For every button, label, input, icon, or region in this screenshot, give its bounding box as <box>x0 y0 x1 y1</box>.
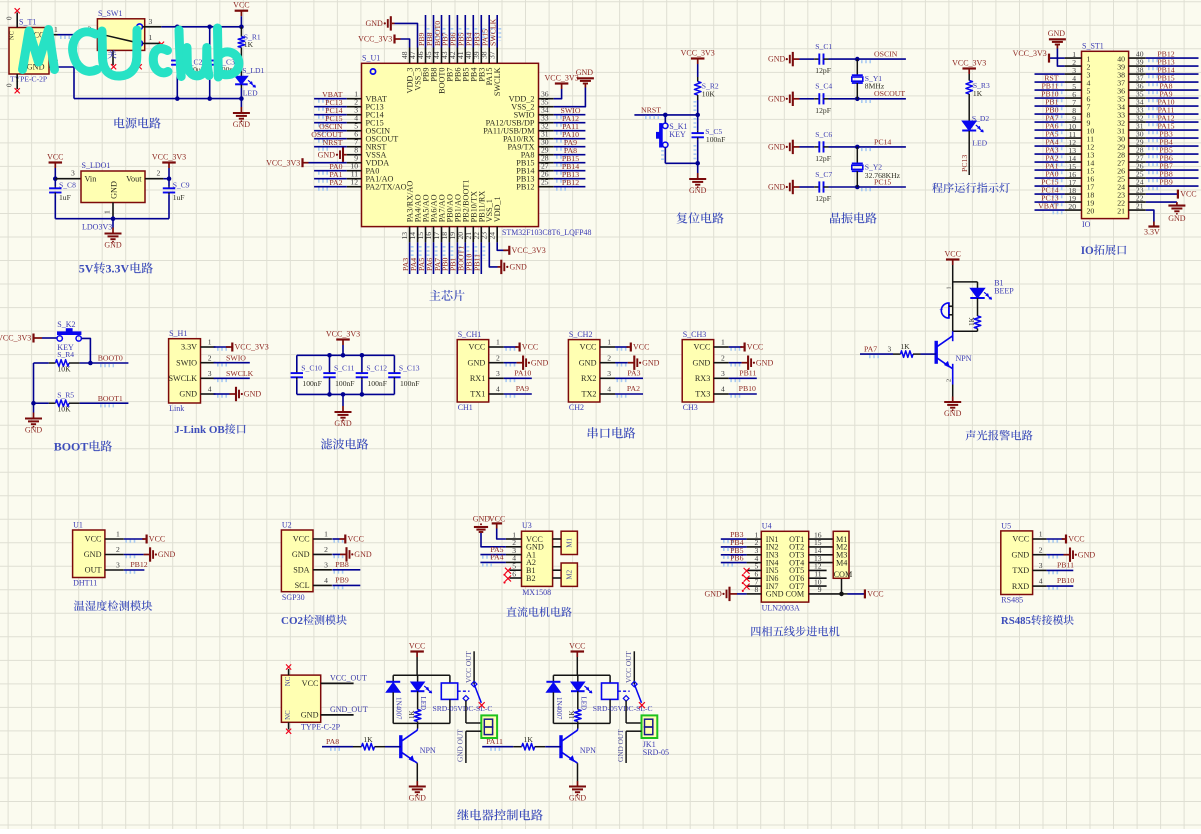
svg-text:PB9: PB9 <box>1159 177 1173 186</box>
pushbutton S_K1 KEY <box>656 115 688 163</box>
resistor 1K relay LED <box>568 710 581 724</box>
ST1 left pin 16 stub <box>1065 177 1082 179</box>
capacitor S_C10 100nF <box>291 355 323 394</box>
svg-text:10K: 10K <box>702 89 716 98</box>
U1 left pin 2 stub <box>347 106 362 108</box>
U1 right pin 25 stub <box>539 186 554 188</box>
wire U3 A2 net PA4 <box>480 561 506 563</box>
wire relay VCC vertical <box>576 657 578 675</box>
U1 bottom pin 19 stub <box>456 227 458 243</box>
ground GND filter <box>342 394 344 406</box>
svg-text:2: 2 <box>607 353 611 362</box>
svg-text:21: 21 <box>1136 202 1144 211</box>
wire BOOT divider vertical <box>33 363 35 403</box>
capacitor S_C4 12pF <box>800 82 833 115</box>
svg-text:S_CH2: S_CH2 <box>569 330 593 339</box>
svg-text:TX1: TX1 <box>470 390 485 399</box>
relay contact arm <box>618 681 642 703</box>
svg-text:3.3V: 3.3V <box>1144 228 1160 237</box>
svg-text:GND: GND <box>1011 550 1029 559</box>
U3 pin2 stub <box>506 546 522 548</box>
wire U1 left pin 11 net PA1 <box>314 178 347 180</box>
svg-text:GND: GND <box>1168 214 1186 223</box>
power flag VCC_3V3 filter <box>342 340 344 346</box>
ST1 right pin 27 stub <box>1129 161 1146 163</box>
svg-text:TXD: TXD <box>1012 566 1029 575</box>
svg-text:4: 4 <box>496 385 500 394</box>
svg-text:2: 2 <box>324 545 328 554</box>
svg-text:VCC: VCC <box>1180 190 1196 199</box>
wire ST1 left pin 20 net VBAT <box>1035 209 1065 211</box>
svg-text:TYPE-C-2P: TYPE-C-2P <box>301 723 341 732</box>
U1 top pin 40 stub <box>472 48 474 64</box>
wire ST1 left pin 17 net PC15 <box>1035 185 1065 187</box>
ground GND power circuit <box>240 99 242 107</box>
ground GND at VSS_2 pin35 <box>554 68 594 107</box>
ST1 left pin 11 stub <box>1065 137 1082 139</box>
svg-text:VCC: VCC <box>149 535 165 544</box>
svg-text:GND: GND <box>158 550 176 559</box>
svg-text:PB9: PB9 <box>335 576 349 585</box>
svg-text:COM: COM <box>786 590 805 599</box>
svg-text:U4: U4 <box>762 521 772 530</box>
title 电源电路 <box>114 117 124 128</box>
junction crystal at OSCIN <box>855 57 860 62</box>
svg-text:3: 3 <box>324 560 328 569</box>
svg-text:3: 3 <box>721 369 725 378</box>
U1 right pin 26 stub <box>539 178 554 180</box>
title 晶振电路 <box>830 212 840 223</box>
power flag VCC U2 pin1 <box>332 535 364 544</box>
svg-text:VCC_3V3: VCC_3V3 <box>152 153 186 162</box>
U1 left pin 5 stub <box>347 130 362 132</box>
U1 left pin 12 stub <box>347 186 362 188</box>
svg-text:KEY: KEY <box>669 130 686 139</box>
svg-text:S_C11: S_C11 <box>334 363 355 372</box>
svg-text:U5: U5 <box>1001 521 1011 530</box>
wire TX1 net PA9 <box>504 393 532 395</box>
no-ERC mark U3 pin5 <box>505 568 511 574</box>
resistor 1K relay base <box>353 735 401 750</box>
U1 bottom pin 22 stub <box>480 227 482 243</box>
wire top rail VCC <box>161 26 241 28</box>
ST1 left pin 18 stub <box>1065 193 1082 195</box>
wire SWIO <box>214 362 250 364</box>
U4 left pin 3 stub <box>747 554 762 556</box>
svg-text:GND: GND <box>756 358 774 367</box>
ST1 left pin 10 stub <box>1065 129 1082 131</box>
ground GND alarm <box>952 397 954 403</box>
svg-text:1: 1 <box>946 286 953 289</box>
power flag VCC alarm <box>952 260 954 266</box>
U1 bottom pin 18 stub <box>448 227 450 243</box>
svg-text:1K: 1K <box>900 342 910 351</box>
module U1 DHT11 <box>73 520 138 587</box>
svg-text:GND: GND <box>1048 29 1066 38</box>
svg-text:BOOT: BOOT <box>54 440 89 454</box>
U1 top pin 41 stub <box>464 48 466 64</box>
U1 bottom pin 14 stub <box>417 227 419 243</box>
power flag VCC ST1 pin23 <box>1146 190 1197 199</box>
capacitor S_C2 100uF <box>171 27 205 99</box>
svg-text:4: 4 <box>208 385 212 394</box>
wire U1 left pin 6 net OSCOUT <box>314 138 347 140</box>
svg-text:SRD-05: SRD-05 <box>643 748 669 757</box>
svg-text:GND: GND <box>768 183 786 192</box>
svg-text:RS485: RS485 <box>1001 615 1031 627</box>
wire RX1 net PA10 <box>504 377 532 379</box>
svg-text:S_H1: S_H1 <box>169 329 187 338</box>
svg-text:S_C7: S_C7 <box>815 170 832 179</box>
U1 top pin 39 stub <box>480 48 482 64</box>
resistor 1K relay base <box>513 735 561 750</box>
svg-text:VCC: VCC <box>348 535 364 544</box>
ST1 left pin 9 stub <box>1065 121 1082 123</box>
svg-text:NRST: NRST <box>323 138 343 147</box>
crystal S_Y1 8MHz <box>852 59 885 99</box>
svg-text:SWCLK: SWCLK <box>226 369 254 378</box>
U1 left pin 3 stub <box>347 114 362 116</box>
junction bottom rail at C2 <box>175 96 180 101</box>
svg-text:PB12: PB12 <box>130 560 147 569</box>
svg-text:LED: LED <box>579 697 587 711</box>
resistor S_R2 10K <box>694 64 718 115</box>
svg-text:VDD_1: VDD_1 <box>493 196 502 222</box>
no-ERC mark U4 pin6 <box>744 576 750 582</box>
power flag VCC relay <box>416 652 418 658</box>
svg-text:24: 24 <box>488 232 497 240</box>
ST1 left pin 5 stub <box>1065 89 1082 91</box>
wire BOOT0 <box>80 362 129 364</box>
no-ERC mark U3 pin6 <box>505 576 511 582</box>
U1 right pin 31 stub <box>539 138 554 140</box>
ground GND CH3 pin2 <box>729 356 774 370</box>
wire U1 top pin 44 net BOOT0 <box>441 15 443 48</box>
wire ST1 right pin 26 net PB7 <box>1146 169 1199 171</box>
relay contact common VCC OUT <box>624 651 634 684</box>
svg-text:2: 2 <box>721 353 725 362</box>
svg-text:GND: GND <box>705 590 723 599</box>
U4 right pin 14 wire <box>809 554 834 556</box>
no-ERC mark SW1 bottom pin A <box>111 64 116 69</box>
svg-text:VCC: VCC <box>468 343 485 352</box>
stepper motor connector M1-M4 COM <box>833 531 853 579</box>
wire U1 bottom pin 19 net PB1 <box>456 242 458 274</box>
svg-text:TX2: TX2 <box>581 390 596 399</box>
svg-text:VCC_3V3: VCC_3V3 <box>952 59 986 68</box>
power flag VCC CH3 pin1 <box>729 343 763 352</box>
svg-text:S_LDO1: S_LDO1 <box>82 161 111 170</box>
svg-text:VCC: VCC <box>1012 535 1029 544</box>
U1 right pin 33 stub <box>539 122 554 124</box>
U1 left pin 9 stub <box>347 162 362 164</box>
svg-text:12pF: 12pF <box>815 106 831 115</box>
svg-text:S_LD1: S_LD1 <box>242 66 264 75</box>
wire U1 top pin 43 net PB7 <box>448 15 450 48</box>
ST1 right pin 37 stub <box>1129 81 1146 83</box>
power flag VCC_3V3 at VDD_1 pin24 <box>497 242 546 255</box>
svg-text:1: 1 <box>149 33 153 42</box>
compile marks reset <box>694 101 697 112</box>
svg-text:GND: GND <box>768 143 786 152</box>
svg-text:S_CH3: S_CH3 <box>683 330 707 339</box>
svg-text:LED: LED <box>243 89 258 98</box>
svg-text:PA11: PA11 <box>486 737 503 746</box>
ST1 right pin 26 stub <box>1129 169 1146 171</box>
svg-text:1K: 1K <box>363 735 373 744</box>
resistor S_R1 1K <box>238 27 261 52</box>
connector T2 TYPE-C-2P output <box>281 669 340 732</box>
svg-text:TX3: TX3 <box>695 390 710 399</box>
resistor 1K alarm LED <box>967 316 981 331</box>
U4 left pin 2 stub <box>747 546 762 548</box>
svg-text:GND: GND <box>569 794 587 803</box>
ground GND U4 pin8 <box>705 587 747 601</box>
U1 bottom pin 15 stub <box>425 227 427 243</box>
LED relay <box>411 675 432 710</box>
ground GND LDO <box>112 219 114 228</box>
power flag VCC_3V3 J-Link pin1 <box>214 343 269 352</box>
svg-text:VCC: VCC <box>409 642 425 651</box>
U1 left pin 1 stub <box>347 98 362 100</box>
svg-text:1K: 1K <box>524 735 534 744</box>
svg-text:GND OUT: GND OUT <box>616 729 625 762</box>
U1 bottom pin 23 stub <box>488 227 490 243</box>
U1 right pin 29 stub <box>539 154 554 156</box>
no-ERC mark SW1 pin1 <box>159 42 164 47</box>
wire U1 left pin 1 net VBAT <box>314 98 347 100</box>
U1 left pin 10 stub <box>347 170 362 172</box>
svg-text:1K: 1K <box>244 40 254 49</box>
svg-text:3: 3 <box>116 561 120 570</box>
U4 right pin 12 wire <box>809 569 827 571</box>
U3 pin5 stub (NC) <box>510 569 522 571</box>
wire ST1 left pin 14 net PA2 <box>1035 161 1065 163</box>
junction reset ground node <box>695 161 700 166</box>
wire ST1 left pin 19 net PC13 <box>1035 201 1065 203</box>
switch S_SW1 开关 <box>84 9 162 65</box>
svg-text:12pF: 12pF <box>815 154 831 163</box>
relay coil SRD-05VDC-SL-C <box>593 675 653 723</box>
svg-text:1uF: 1uF <box>173 193 185 202</box>
U4 left pin 4 stub <box>747 562 762 564</box>
ST1 left pin 17 stub <box>1065 185 1082 187</box>
wire U4 IN4 net PB6 <box>721 562 747 564</box>
ST1 left pin 19 stub <box>1065 201 1082 203</box>
svg-text:PA4: PA4 <box>490 553 503 562</box>
svg-text:MX1508: MX1508 <box>522 588 551 597</box>
wire GND OUT <box>456 729 482 763</box>
junction BOOT0 <box>88 361 93 366</box>
resistor 1K alarm base <box>893 342 936 357</box>
svg-text:PA8: PA8 <box>326 737 339 746</box>
svg-text:RX2: RX2 <box>581 374 596 383</box>
svg-text:1: 1 <box>721 338 725 347</box>
wire ST1 right pin 24 net PB9 <box>1146 185 1199 187</box>
svg-text:9: 9 <box>818 585 822 594</box>
ST1 right pin 34 stub <box>1129 105 1146 107</box>
svg-text:1: 1 <box>103 210 112 214</box>
wire U1 bottom pin 21 net PB10 <box>472 242 474 274</box>
wire U1 bottom pin 15 net PA5 <box>425 242 427 274</box>
svg-text:VCC: VCC <box>489 514 505 523</box>
svg-text:VCC: VCC <box>693 343 710 352</box>
U4 right pin 10 wire <box>809 585 827 587</box>
U4 right pin 16 wire <box>809 538 834 540</box>
ST1 right pin 28 stub <box>1129 153 1146 155</box>
svg-text:Vout: Vout <box>126 175 142 184</box>
svg-text:PA9: PA9 <box>516 384 529 393</box>
wire alarm branch top <box>953 281 978 283</box>
svg-text:BOOT1: BOOT1 <box>98 394 123 403</box>
wire ST1 right pin 30 net PB3 <box>1146 137 1199 139</box>
U1 bottom pin 16 stub <box>433 227 435 243</box>
wire ST1 right pin 29 net PB4 <box>1146 145 1199 147</box>
wire RX2 net PA3 <box>615 377 643 379</box>
svg-text:VCC: VCC <box>302 679 319 688</box>
svg-text:PB10: PB10 <box>1057 576 1074 585</box>
power flag VCC_3V3 BOOT <box>0 334 57 343</box>
ST1 right pin 38 stub <box>1129 73 1146 75</box>
ground GND at VSS_1 pin23 <box>489 242 527 274</box>
svg-text:Link: Link <box>169 404 184 413</box>
svg-text:GND: GND <box>244 390 262 399</box>
svg-text:IO: IO <box>1082 220 1091 229</box>
junction filter top rail <box>360 353 365 358</box>
U1 left pin 11 stub <box>347 178 362 180</box>
wire U1 bottom pin 13 net PA3 <box>409 242 411 274</box>
serial connector S_CH2 <box>568 330 628 412</box>
svg-text:CH3: CH3 <box>683 403 698 412</box>
title 直流电机电路 <box>506 607 516 617</box>
U1 bottom pin 13 stub <box>409 227 411 243</box>
wire U1 bottom pin 17 net PA7 <box>441 242 443 274</box>
U4 right pin 13 wire <box>809 562 834 564</box>
ground GND flag for S_C4 <box>768 92 800 106</box>
svg-text:3.3V: 3.3V <box>181 343 197 352</box>
wire relay bottom rail <box>393 722 450 724</box>
svg-text:1: 1 <box>607 338 611 347</box>
U1 bottom pin 20 stub <box>464 227 466 243</box>
ground GND flag for S_C6 <box>768 140 800 154</box>
U1 left pin 8 stub <box>347 154 362 156</box>
svg-text:GND: GND <box>84 550 102 559</box>
wire K2 to BOOT0 node <box>82 338 91 363</box>
svg-text:U2: U2 <box>282 520 292 529</box>
svg-text:SWIO: SWIO <box>176 358 197 367</box>
svg-text:CH1: CH1 <box>458 403 473 412</box>
wire VCC to Vin and C8 <box>54 168 56 186</box>
crystal S_Y2 32.768KHz <box>852 147 901 187</box>
U3 pin4 stub <box>506 561 522 563</box>
svg-text:100nF: 100nF <box>335 379 354 388</box>
wire U1 right pin 28 net PB15 <box>554 162 586 164</box>
label 开关 <box>98 50 107 59</box>
svg-text:PB8: PB8 <box>335 560 349 569</box>
svg-text:GND: GND <box>531 358 549 367</box>
svg-text:S_K2: S_K2 <box>57 320 75 329</box>
svg-text:100nF: 100nF <box>400 379 419 388</box>
no-ERC mark relay arm <box>639 702 645 708</box>
module U2 SGP30 <box>281 520 345 602</box>
U1 right pin 35 stub <box>539 106 554 108</box>
power flag VCC_3V3 at LDO output <box>168 163 170 169</box>
wire relay bottom rail <box>553 722 610 724</box>
transistor Q NPN alarm <box>936 331 972 384</box>
junction crystal at PC14 <box>855 145 860 150</box>
ground GND U5 pin2 <box>1047 548 1096 562</box>
wire U1 left pin 5 net OSCIN <box>314 130 347 132</box>
module U5 RS485 <box>1001 521 1060 604</box>
U1 top pin 48 stub <box>409 48 411 64</box>
svg-text:VCC: VCC <box>293 535 310 544</box>
junction power rail corner bottom <box>239 96 244 101</box>
wire emitter down <box>577 763 579 781</box>
ST1 right pin 39 stub <box>1129 65 1146 67</box>
wire U1 bottom pin 14 net PA4 <box>417 242 419 274</box>
svg-text:S_U1: S_U1 <box>362 53 380 62</box>
ST1 right pin 22 stub <box>1129 201 1146 203</box>
svg-text:2: 2 <box>157 169 161 178</box>
no-ERC mark SW1 bottom pin B <box>137 64 142 69</box>
svg-text:BEEP: BEEP <box>994 287 1014 296</box>
U4 left pin 5 stub <box>747 569 762 571</box>
svg-text:VCC_3V3: VCC_3V3 <box>235 343 269 352</box>
driver U3 MX1508 <box>512 521 552 597</box>
ST1 left pin 14 stub <box>1065 161 1082 163</box>
ST1 right pin 33 stub <box>1129 113 1146 115</box>
svg-text:GND: GND <box>354 550 372 559</box>
capacitor S_C8 1uF <box>49 181 76 219</box>
svg-text:VCC_OUT: VCC_OUT <box>330 673 367 682</box>
LED relay <box>571 675 592 710</box>
svg-text:2: 2 <box>116 545 120 554</box>
ST1 left pin 7 stub <box>1065 105 1082 107</box>
diode 1N4007 <box>386 675 403 723</box>
svg-text:1uF: 1uF <box>59 193 71 202</box>
svg-text:2: 2 <box>1039 545 1043 554</box>
svg-text:S_R4: S_R4 <box>57 350 74 359</box>
junction filter top rail <box>327 353 332 358</box>
svg-text:PB12: PB12 <box>516 183 534 192</box>
title 程序运行指示灯 <box>932 183 943 193</box>
watermark MCUclub <box>23 28 239 77</box>
wire Vin stub <box>55 178 81 180</box>
wire U1 right pin 30 net PA9 <box>554 146 586 148</box>
ST1 right pin 30 stub <box>1129 137 1146 139</box>
svg-text:SRD-05VDC-SL-C: SRD-05VDC-SL-C <box>593 704 653 713</box>
ground GND flag U3 <box>473 514 506 546</box>
svg-text:GND: GND <box>301 710 319 719</box>
power flag VCC U1 pin1 <box>124 535 165 544</box>
wire U1 top pin 37 net SWCLK <box>496 15 498 48</box>
svg-text:VCC_3V3: VCC_3V3 <box>544 74 578 83</box>
U1 top pin 43 stub <box>448 48 450 64</box>
svg-text:21: 21 <box>1117 207 1125 216</box>
title 声光报警电路 <box>965 430 975 440</box>
svg-text:4: 4 <box>1039 577 1043 586</box>
wire filter top rail <box>297 354 395 356</box>
svg-text:GND: GND <box>179 390 197 399</box>
wire U1 bottom pin 20 net BOOT1 <box>464 242 466 274</box>
svg-text:S_C13: S_C13 <box>399 363 420 372</box>
svg-text:VCC: VCC <box>944 250 960 259</box>
U1 right pin 34 stub <box>539 114 554 116</box>
wire alarm branch bottom <box>953 330 978 332</box>
svg-text:GND: GND <box>110 181 119 199</box>
svg-text:VCC: VCC <box>580 343 597 352</box>
svg-text:GND: GND <box>768 55 786 64</box>
